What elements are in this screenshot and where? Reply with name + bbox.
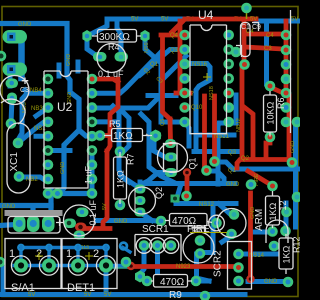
svg-text:Q10: Q10 <box>191 105 203 111</box>
wire GND frame top-left <box>0 24 92 194</box>
U3 left pads <box>281 30 292 128</box>
wire GND mid-bottom horizontal <box>97 218 157 224</box>
wire hex pad vertical <box>0 0 3 3</box>
capacitor C10 outline <box>241 23 251 57</box>
capacitor bracket right of U4 <box>236 46 242 58</box>
svg-text:NS21: NS21 <box>214 134 230 140</box>
svg-text:12: 12 <box>278 200 288 210</box>
wire GND bottom right horizontal <box>248 279 288 284</box>
wire NS12 left vertical <box>76 62 81 71</box>
wire diagonal D2 to U2 pin <box>95 119 119 124</box>
wire R7 area diag to Q2 top pad <box>121 176 138 187</box>
svg-text:5V: 5V <box>186 17 193 23</box>
svg-text:C3: C3 <box>20 87 29 94</box>
wire red C10 down to horiz <box>240 66 245 157</box>
svg-text:1KΩ: 1KΩ <box>116 170 126 188</box>
IC U3 outline <box>290 10 292 133</box>
resistor R7 outline <box>114 152 127 204</box>
label R5 <box>109 119 121 129</box>
svg-text:NS16: NS16 <box>192 62 208 68</box>
pad left edge <box>0 51 6 62</box>
wire red R6 bottom to Q2 via <box>237 96 290 168</box>
label 1 uF rotated <box>84 165 94 184</box>
label R4 <box>108 42 120 52</box>
label R13 rotated <box>292 236 302 253</box>
Q1 pad circles white <box>136 238 152 254</box>
label R9 <box>169 290 182 300</box>
wire 5V top right blue <box>256 19 300 24</box>
svg-text:NS18: NS18 <box>209 86 215 100</box>
svg-text:1: 1 <box>66 248 72 260</box>
wire GND3 horizontal <box>143 173 235 184</box>
svg-text:Q4: Q4 <box>170 33 179 39</box>
svg-text:R9: R9 <box>169 290 182 300</box>
connector SV oval pads <box>13 216 55 233</box>
label R7 rotated <box>126 153 136 165</box>
wire red vert x180 <box>178 21 183 93</box>
wire U2 below vertical <box>0 190 51 226</box>
svg-text:C4: C4 <box>266 33 274 39</box>
connector S/A1 DET1 donut pads <box>14 259 113 273</box>
capacitor C5 outline <box>97 44 126 73</box>
svg-text:R5: R5 <box>109 119 121 129</box>
svg-text:Q1: Q1 <box>188 157 198 169</box>
wire NB4 diag from U2 pin2 <box>25 90 48 93</box>
wire 5V top blue <box>87 19 187 36</box>
connector via rings <box>18 243 127 251</box>
label SCR2 rotated <box>213 250 224 277</box>
label C10 <box>241 24 261 31</box>
label S/A1 <box>11 282 35 294</box>
IC U4 outline <box>190 25 227 134</box>
svg-text:GND: GND <box>226 182 240 188</box>
svg-text:0.1 uF: 0.1 uF <box>98 69 124 79</box>
resistor R12 outline <box>266 191 280 228</box>
wire Q3 blue horizontal upper <box>148 93 176 98</box>
transistor C3 pads <box>6 79 19 105</box>
label 0.1 uF rotated <box>88 199 98 225</box>
R6 pads <box>265 81 276 143</box>
resistor R6 outline <box>264 91 277 137</box>
wire NS14 horizontal <box>244 252 276 257</box>
svg-text:470Ω: 470Ω <box>160 277 185 288</box>
R12 pads <box>246 157 298 251</box>
svg-text:SCR2: SCR2 <box>213 250 224 277</box>
svg-text:2: 2 <box>93 248 99 260</box>
connector S/A1 box <box>5 239 61 289</box>
svg-text:Q3: Q3 <box>228 150 237 156</box>
wire red U3 pads vertical <box>284 21 289 93</box>
U2 right pads <box>87 74 98 199</box>
hex pad below SCR1 <box>135 271 145 283</box>
wire red U4 pin1 branch <box>161 21 185 141</box>
wire red 5V C10 path <box>242 20 247 62</box>
wire red FIRE diagonal <box>248 171 272 185</box>
SCR1 outline <box>135 235 181 262</box>
svg-text:GND: GND <box>290 141 296 153</box>
wire NS1 XC1 top pad to U2 pin4 <box>18 122 48 143</box>
pads below U4 red verts <box>201 156 220 176</box>
label 470Ω R9 <box>160 277 185 288</box>
svg-text:XC1: XC1 <box>9 152 20 172</box>
IC U2 outline <box>44 71 88 188</box>
via right of U4 <box>231 47 242 58</box>
svg-text:GND: GND <box>66 54 72 66</box>
svg-text:Q3: Q3 <box>170 48 179 54</box>
hex pad left of Q1 <box>146 130 161 143</box>
svg-text:Q2: Q2 <box>241 156 250 162</box>
wire red under U4 B <box>212 96 217 159</box>
svg-text:C1: C1 <box>241 24 250 31</box>
pad top right with stem <box>241 3 252 19</box>
donut pad rings <box>11 256 115 275</box>
wire red mid-right vertical <box>244 107 253 157</box>
wire SCR2 circle pad up to NS12 <box>219 204 234 215</box>
wire Qbig bottom pad down <box>197 254 210 281</box>
transistor C4 outline <box>1 99 25 124</box>
wire Q1 mid pad diag from hex <box>154 139 165 157</box>
svg-text:470Ω: 470Ω <box>172 216 197 227</box>
wire red branch C4 <box>244 32 284 37</box>
svg-text:1KΩ: 1KΩ <box>282 245 292 263</box>
wire pill2 to C3 pad <box>8 70 13 86</box>
pads right edge partial <box>0 117 302 300</box>
svg-text:1KΩ: 1KΩ <box>113 131 133 142</box>
transistor Q5 outline <box>183 228 214 264</box>
svg-text:10KΩ: 10KΩ <box>266 101 276 124</box>
svg-text:5V: 5V <box>102 203 108 210</box>
svg-text:NB12: NB12 <box>236 118 242 132</box>
SCR1 pads <box>139 240 177 251</box>
rotated olive labels <box>22 42 296 219</box>
airwire cross U4 <box>203 73 211 81</box>
svg-text:C9: C9 <box>252 24 261 31</box>
wire connector vias horizontal <box>21 246 106 249</box>
wire NB lower to Q2 mid pad <box>122 177 129 182</box>
transistor C3 outline <box>0 76 29 105</box>
wire bottom left drop <box>3 268 106 293</box>
label U2 <box>57 100 73 114</box>
wire blue verticals through R5 area <box>113 106 173 182</box>
wire NB2 XC1 bottom pad to U2 pin7 <box>19 177 48 180</box>
wire red GND vertical right <box>248 193 253 279</box>
svg-text:GND: GND <box>2 204 16 210</box>
svg-text:C3: C3 <box>264 46 272 52</box>
svg-text:U2: U2 <box>57 100 73 114</box>
svg-text:1: 1 <box>9 248 15 260</box>
label 1KΩ R7 rotated <box>116 170 126 188</box>
resistor R13 outline <box>279 234 293 274</box>
via red 5V bottom <box>127 262 135 270</box>
crystal XC1 outline <box>7 123 30 193</box>
wire diagonal D1 to U2 pin <box>95 52 186 93</box>
wire GND bottom-left <box>0 203 51 208</box>
svg-text:5V: 5V <box>131 17 138 23</box>
svg-text:GND: GND <box>114 219 128 225</box>
electrolytic C6 pads <box>64 208 89 240</box>
transistor top right outline <box>266 220 288 243</box>
svg-text:GND: GND <box>18 22 32 28</box>
wire NB3 diag from U2 pin3 <box>18 95 48 141</box>
svg-text:5V: 5V <box>291 17 298 23</box>
svg-text:5V: 5V <box>161 17 168 23</box>
wire 5V red top <box>185 17 256 22</box>
wire Q1 long horizontal <box>207 162 301 184</box>
wire Q2 top pad up <box>138 182 143 188</box>
svg-text:R10: R10 <box>192 228 205 235</box>
wire R4 left pad to C5 pad <box>87 36 97 56</box>
wire U2 pin5 GND stub <box>36 136 70 150</box>
svg-text:DET1: DET1 <box>67 282 95 294</box>
wire NS12 horizontal <box>176 184 236 204</box>
connector SV silk bar <box>5 210 63 233</box>
U4 right pads <box>223 30 234 128</box>
wire Q3 horizontal under U4 <box>194 149 238 154</box>
svg-text:R7: R7 <box>126 153 136 165</box>
airwire cross S/A1 <box>35 252 43 260</box>
wire red 5V from R7 down <box>85 151 110 229</box>
label 1KΩ R12 rotated <box>268 202 278 220</box>
R4 pads hex <box>82 30 149 42</box>
wire red vert A left <box>163 36 171 119</box>
wire red branch C3 <box>244 47 283 49</box>
wire SCR1 pads down verticals <box>141 252 158 273</box>
transistor Q1 pads <box>165 139 177 177</box>
label Q5 box <box>192 228 205 235</box>
airwire horizontal SCR1 <box>85 233 227 261</box>
U2 left pads <box>43 74 54 199</box>
resistor R9 outline <box>151 275 192 288</box>
wire red U2 pin1 link <box>93 79 118 82</box>
wire Q7 red horizontal <box>176 91 190 96</box>
wire red R5 vertical <box>102 79 118 151</box>
wire DET1 right stub <box>106 248 130 266</box>
svg-text:Q1: Q1 <box>150 62 159 68</box>
svg-text:NB4: NB4 <box>30 88 42 94</box>
svg-text:Q2: Q2 <box>154 187 164 199</box>
label 470Ω R8 <box>172 216 197 227</box>
label 0.1 uF <box>98 69 124 79</box>
svg-text:1 uF: 1 uF <box>84 165 94 184</box>
svg-text:S/A1: S/A1 <box>11 282 35 294</box>
transistor Q5 pads <box>195 235 206 259</box>
label U4 <box>198 8 214 22</box>
wire NS21 horizontal <box>196 133 234 138</box>
pin numbers connectors <box>9 248 99 260</box>
svg-text:R6: R6 <box>276 97 286 109</box>
label XC1 rotated <box>9 152 20 172</box>
pads red verts above Q1 <box>181 191 192 202</box>
wire NS16 U4 pin3 <box>186 64 210 152</box>
connector SV pill pad 1 <box>3 30 28 44</box>
wire Q3 diagonal to U4 pin2 <box>140 50 184 76</box>
R7 pads <box>115 146 126 210</box>
svg-text:5V: 5V <box>104 292 111 298</box>
label 10KΩ R6 rotated <box>266 101 276 124</box>
wire top to C5 right pad <box>117 21 121 57</box>
svg-text:ARM: ARM <box>254 209 265 231</box>
wire connector donut horizontal <box>14 252 106 266</box>
label C3 plus <box>20 87 29 94</box>
connector SV pill pad 2 <box>3 63 28 77</box>
svg-text:NB3: NB3 <box>31 106 43 112</box>
U4 left pads <box>179 30 190 128</box>
svg-text:GND: GND <box>60 162 66 174</box>
svg-text:0.1 uF: 0.1 uF <box>88 199 98 225</box>
SCR2 TO220 pads <box>233 249 244 287</box>
wire Q2 bottom pad diag to 470 pad <box>141 213 152 221</box>
wire blue vert right long <box>264 23 269 84</box>
wire red 5V horizontal to SCR2 <box>130 264 238 269</box>
connector DET1 box <box>62 239 117 289</box>
label Q1 rotated <box>188 157 198 169</box>
resistor 470 R8 outline <box>165 214 212 227</box>
svg-text:R12: R12 <box>292 236 301 253</box>
label 1KΩ R13 rotated <box>282 245 292 263</box>
wire SCR2 circle bottom pad diag <box>203 206 231 253</box>
svg-text:5V: 5V <box>234 17 241 23</box>
R5 pads <box>95 130 162 141</box>
svg-text:NS12: NS12 <box>199 202 215 208</box>
resistor R5 outline <box>104 129 152 142</box>
label Q2 rotated <box>154 187 164 199</box>
label SCR1 <box>142 224 169 235</box>
wire U2 right pin7 down <box>90 151 95 194</box>
transistor C4 pad <box>6 118 17 129</box>
wire red under U4 A <box>202 96 207 168</box>
wire blue vert right of U4 <box>218 95 236 184</box>
wire red via to Q1 area <box>0 0 2 2</box>
wire pill pad1 to pill pad2 <box>18 38 25 78</box>
wire blue right edge vertical <box>286 122 296 228</box>
wire bottom long horizontal <box>0 292 245 297</box>
SCR2 TO220 outline <box>228 242 252 290</box>
svg-text:R4: R4 <box>108 42 120 52</box>
pad small rect NS12 <box>171 195 180 203</box>
capacitor C5 pads <box>93 52 128 62</box>
via red GND bottom <box>246 275 254 283</box>
svg-text:U4: U4 <box>198 8 214 22</box>
svg-text:N923: N923 <box>176 264 191 270</box>
label 1KΩ R5 <box>113 131 133 142</box>
label R12 rotated <box>278 200 288 210</box>
svg-text:GND: GND <box>264 279 278 285</box>
svg-text:Q5: Q5 <box>160 119 166 126</box>
svg-text:Q1: Q1 <box>228 168 237 174</box>
SCR2 circle pads <box>226 209 239 239</box>
svg-text:1KΩ: 1KΩ <box>268 202 278 220</box>
label 300KΩ <box>99 32 130 43</box>
label R6 rotated <box>276 97 286 109</box>
via red right of Q1 <box>183 168 191 176</box>
electrolytic C6 outline <box>56 205 95 236</box>
wire U2 top entrant <box>57 65 62 76</box>
wire teal DET1 to via <box>107 264 126 269</box>
capacitor C9 bracket <box>252 23 259 32</box>
wire NS9 from R4 right pad <box>97 36 189 146</box>
R13 pads <box>280 207 293 288</box>
svg-text:5V: 5V <box>250 17 257 23</box>
XC1 pads <box>13 138 63 199</box>
transistor Q2 outline <box>129 187 156 214</box>
label FIRE <box>187 224 210 235</box>
wire red GND2 vertical <box>185 174 190 194</box>
470 ohm R8 pads <box>156 216 222 229</box>
transistor Q2 pads <box>135 185 146 217</box>
wire C3 pads diagonals <box>11 98 12 124</box>
wire red R6 top link <box>270 87 285 92</box>
svg-text:NB2: NB2 <box>26 177 38 183</box>
C10 pad <box>239 59 250 70</box>
SCR2 circle outline <box>209 209 246 238</box>
transistor Q1 outline <box>158 143 188 173</box>
470 ohm R9 pads <box>142 276 202 287</box>
wire NS right mid horizontal <box>255 230 271 235</box>
svg-text:SCR1: SCR1 <box>142 224 169 235</box>
resistor R4 outline <box>92 30 141 43</box>
label DET1 <box>67 282 95 294</box>
svg-text:NS9: NS9 <box>144 42 150 53</box>
label ARM rotated <box>254 209 265 231</box>
